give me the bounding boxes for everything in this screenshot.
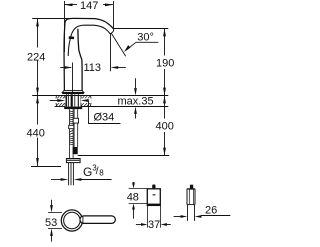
dim 147 left arrow xyxy=(65,3,73,6)
threaded rod (left) xyxy=(70,109,74,158)
centerline of pillar xyxy=(72,63,74,94)
lever view outer circle xyxy=(61,210,82,231)
sensor window xyxy=(69,36,75,39)
counter break edge right xyxy=(89,95,92,107)
dim 113 right arrow xyxy=(111,66,119,69)
svg-text:113: 113 xyxy=(84,62,102,74)
dia34 left arrow xyxy=(50,100,58,102)
shank through counter xyxy=(65,94,81,106)
ref line outlet height xyxy=(113,28,168,30)
dia34 right arrow xyxy=(81,99,89,102)
dim 190 top arrow xyxy=(163,29,166,37)
rod nut xyxy=(69,125,74,128)
white halo for dia34 arrows xyxy=(50,98,65,103)
ref line bottom of 440 xyxy=(31,166,61,168)
rod thread ticks xyxy=(70,111,74,145)
spray axis 30 deg line xyxy=(111,33,125,56)
svg-text:37: 37 xyxy=(148,219,160,231)
dim 224 bottom arrow xyxy=(36,88,39,96)
svg-text:440: 440 xyxy=(27,128,45,140)
dim 37 ext lines xyxy=(147,206,149,228)
G3/8 tail tube xyxy=(69,163,74,186)
lever collar line xyxy=(82,216,84,223)
lever view inner circle xyxy=(64,212,81,229)
base flange dark band xyxy=(62,93,84,95)
dim 48 bottom arrow xyxy=(133,210,135,219)
dim 147 line xyxy=(65,4,77,6)
G3/8 right arrow xyxy=(74,178,82,181)
spout beak tip xyxy=(110,29,114,34)
counter hatch left xyxy=(56,95,65,106)
bottom nut on hose xyxy=(66,159,80,163)
dim 37 left arrow xyxy=(136,224,141,226)
dim 400 line xyxy=(164,96,166,119)
dim 440 bottom arrow xyxy=(36,158,39,166)
counter break edge left xyxy=(55,95,58,107)
ext line left of 147 xyxy=(64,1,66,52)
svg-text:30°: 30° xyxy=(137,32,154,44)
svg-text:max.35: max.35 xyxy=(118,95,154,107)
faucet base flange xyxy=(62,91,84,93)
box inner dash xyxy=(153,194,156,195)
control box side view xyxy=(187,189,195,204)
dim 224 top arrow xyxy=(36,19,39,27)
svg-text:53: 53 xyxy=(45,217,57,229)
dim 26 right arrow + leader xyxy=(195,215,202,218)
dim 113 left line xyxy=(60,67,71,69)
control box front view xyxy=(147,189,160,206)
box nub xyxy=(152,185,155,189)
dim 37 right arrow xyxy=(166,224,171,226)
counter bottom line right xyxy=(81,106,169,108)
dim 440 top arrow xyxy=(36,96,39,104)
svg-text:Ø34: Ø34 xyxy=(94,112,115,124)
rod break marks xyxy=(70,130,74,134)
svg-text:190: 190 xyxy=(156,57,174,69)
lever handle xyxy=(80,216,115,224)
spout inner curve xyxy=(68,25,110,56)
top ref line (spout top) xyxy=(32,18,71,20)
counter bottom line left xyxy=(55,106,66,108)
dim 48 top arrow xyxy=(133,182,135,184)
30 deg leader xyxy=(127,42,136,50)
locknut under counter xyxy=(64,107,82,110)
dim 26 left arrow xyxy=(174,216,181,218)
dim 400 bottom arrow xyxy=(163,148,166,156)
svg-text:48: 48 xyxy=(127,191,139,203)
ext line right of 147 (outlet axis) xyxy=(113,1,115,29)
dim 190 line xyxy=(164,29,166,56)
dim 113 left arrow xyxy=(65,66,73,69)
hose black block xyxy=(73,147,78,154)
dim 147 right arrow xyxy=(105,3,113,6)
svg-text:26: 26 xyxy=(205,205,217,217)
dim 53 bottom arrow xyxy=(51,236,53,242)
max35 top arrow xyxy=(135,78,137,88)
dim 440 line xyxy=(37,96,39,125)
svg-text:224: 224 xyxy=(27,51,45,63)
ext line outlet axis lower xyxy=(110,34,112,72)
max35 bottom arrow xyxy=(135,114,137,119)
faucet spout outline xyxy=(64,18,113,90)
counter hatch right xyxy=(81,95,91,106)
dim 48 ext lines xyxy=(129,188,148,190)
dia34 leader xyxy=(89,101,121,124)
counter top line xyxy=(32,95,168,97)
svg-text:G: G xyxy=(83,165,92,179)
svg-text:147: 147 xyxy=(80,0,98,12)
pillar right edge xyxy=(78,29,82,91)
ref line 400 bottom xyxy=(78,155,170,157)
dim 190 bottom arrow xyxy=(163,88,166,96)
supply hose (right) xyxy=(74,109,78,147)
box bottom dark band xyxy=(147,204,160,206)
dim 400 top arrow xyxy=(163,96,166,104)
side box lower tube xyxy=(188,205,195,221)
dim 53 top arrow xyxy=(51,200,53,206)
G3/8 left arrow xyxy=(51,179,62,181)
svg-text:400: 400 xyxy=(156,120,174,132)
dim 224 line xyxy=(37,19,39,48)
side box top cap xyxy=(187,188,195,189)
hose connector block xyxy=(73,118,78,123)
side box nub xyxy=(190,185,193,189)
svg-text:8: 8 xyxy=(99,168,104,177)
dim 53 ticks xyxy=(48,212,62,214)
